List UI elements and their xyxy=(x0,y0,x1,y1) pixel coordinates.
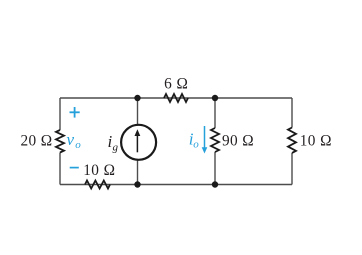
svg-text:o: o xyxy=(193,139,199,151)
current label io (cyan) xyxy=(189,130,200,151)
resistor 20 ohm value label xyxy=(20,133,52,150)
svg-text:10 Ω: 10 Ω xyxy=(300,133,332,150)
svg-text:10 Ω: 10 Ω xyxy=(83,162,115,179)
resistor 6 ohm (top) xyxy=(164,94,188,102)
resistor 10 ohm (right) xyxy=(288,128,296,153)
resistor 10 ohm (bottom left) xyxy=(85,181,110,189)
wire current source branch xyxy=(137,98,139,185)
voltage label vo (cyan) xyxy=(67,130,82,151)
wire bottom rail xyxy=(60,184,292,186)
svg-text:v: v xyxy=(67,130,75,149)
current source label ig xyxy=(108,132,119,153)
resistor 90 ohm (middle branch) xyxy=(211,128,219,152)
polarity plus sign (cyan) xyxy=(70,107,80,118)
wire 90 ohm branch xyxy=(214,98,216,185)
wire top (node a to node b rail) xyxy=(60,97,292,99)
polarity minus sign (cyan) xyxy=(70,167,79,169)
svg-text:6 Ω: 6 Ω xyxy=(164,76,188,93)
resistor 10 ohm (right) value label xyxy=(300,133,332,150)
svg-text:90 Ω: 90 Ω xyxy=(222,133,254,150)
wire right branch (with gap for right 10 ohm resistor) xyxy=(291,98,293,185)
current source ig (circle symbol) xyxy=(121,125,156,160)
current source arrow (inside circle, pointing up) xyxy=(135,129,141,152)
resistor 90 ohm value label xyxy=(222,133,254,150)
node dot bottom at 90 ohm branch xyxy=(212,181,218,187)
svg-text:20 Ω: 20 Ω xyxy=(20,133,52,150)
resistor 20 ohm (left) xyxy=(56,130,64,153)
node dot top at 90 ohm branch xyxy=(212,95,218,101)
svg-text:g: g xyxy=(113,141,119,153)
node dot bottom at current source branch xyxy=(134,181,140,187)
resistor 6 ohm value label xyxy=(164,76,188,93)
current io arrow (cyan, pointing down) xyxy=(202,126,208,154)
node dot top at current source branch xyxy=(134,95,140,101)
resistor 10 ohm (bottom) value label xyxy=(83,162,115,179)
wire left branch (with gap for 20 ohm resistor) xyxy=(59,98,61,185)
svg-text:o: o xyxy=(75,139,81,151)
